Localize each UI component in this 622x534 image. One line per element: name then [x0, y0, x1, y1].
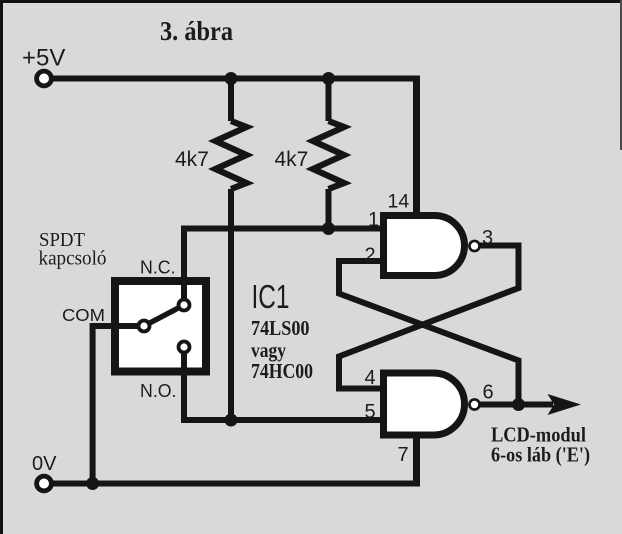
svg-text:3: 3: [482, 227, 493, 249]
svg-text:3. ábra: 3. ábra: [160, 16, 233, 46]
svg-text:IC1: IC1: [252, 278, 290, 315]
svg-text:1: 1: [368, 209, 379, 231]
svg-text:kapcsoló: kapcsoló: [39, 248, 107, 270]
svg-text:4k7: 4k7: [275, 148, 309, 171]
svg-text:14: 14: [388, 191, 410, 213]
svg-text:0V: 0V: [32, 453, 57, 475]
svg-text:6-os láb ('E'): 6-os láb ('E'): [491, 443, 590, 467]
svg-text:4: 4: [365, 367, 376, 389]
svg-text:2: 2: [365, 245, 376, 267]
svg-text:4k7: 4k7: [175, 148, 209, 171]
svg-text:N.O.: N.O.: [140, 381, 177, 401]
svg-text:74LS00: 74LS00: [251, 316, 310, 340]
svg-text:5: 5: [365, 401, 376, 423]
svg-text:6: 6: [483, 382, 494, 404]
svg-text:74HC00: 74HC00: [251, 359, 313, 383]
svg-text:7: 7: [398, 444, 409, 466]
svg-text:COM: COM: [62, 305, 105, 325]
svg-text:N.C.: N.C.: [140, 258, 176, 278]
svg-text:+5V: +5V: [22, 45, 65, 72]
